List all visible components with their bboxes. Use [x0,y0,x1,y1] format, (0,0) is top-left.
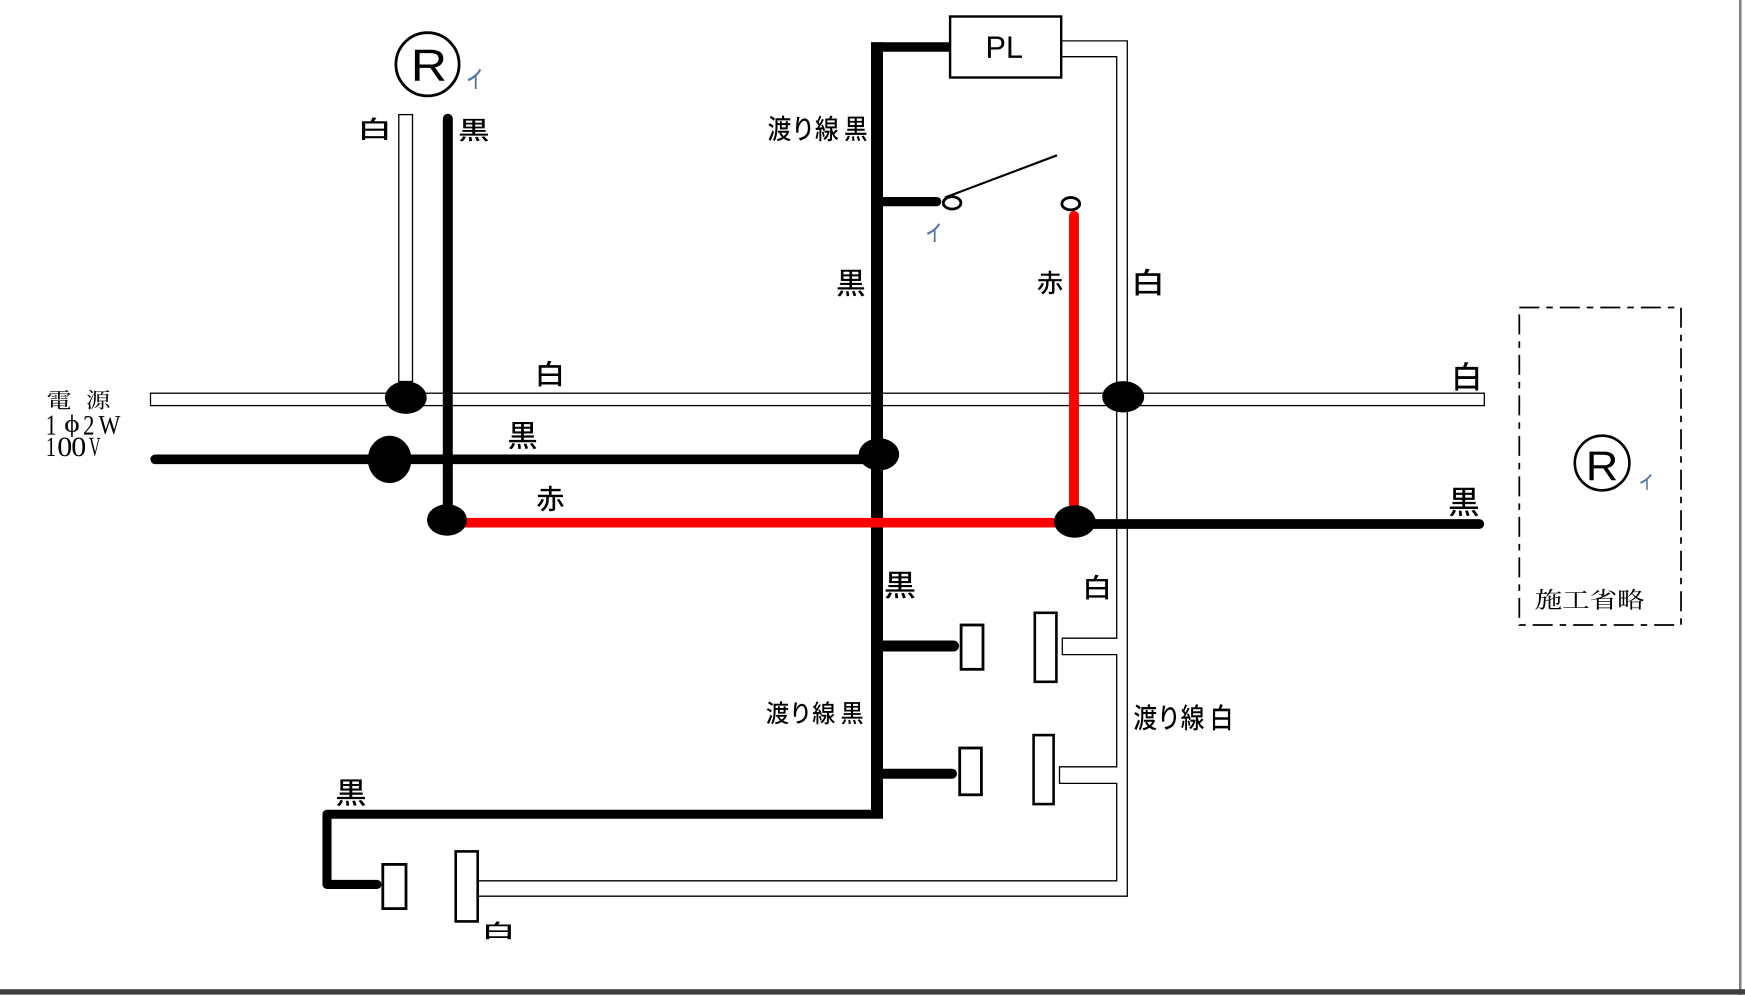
receptacle 2 black terminal [960,748,982,795]
label 白 bottom [486,922,511,940]
pilot lamp PL label [988,37,1022,58]
label 渡り線 白 [1134,704,1230,730]
label 赤 mid [537,486,563,512]
label 黒 switch-left [838,270,865,297]
label 施工省略 [1535,589,1644,610]
switch contact right [1062,198,1080,210]
label 白 top-left [362,117,387,140]
wire: white neutral vertical drop from lamp R to junction [399,115,413,382]
lamp R right subscript イ [1640,474,1651,490]
label 100V [48,438,55,456]
label 白 below right junction [1086,575,1108,600]
node: junction dot black wire left [368,436,412,483]
label 白 switch-right [1136,269,1161,296]
receptacle 2 white terminal [1034,735,1054,804]
label 黒 top-left [460,119,489,142]
wire: black stub to receptacle 1 [877,641,954,652]
label 黒 mid [509,422,536,449]
wire: red horizontal between junctions [447,518,1075,528]
node: junction dot red wire right [1054,505,1096,537]
wire: black vertical from lamp R down to red junction [443,119,453,524]
receptacle 3 white terminal [456,851,478,921]
dashed box 施工省略 [1519,308,1681,626]
label 黒 right-end [1450,488,1479,517]
wire: white neutral horizontal from source to right end [151,393,1485,405]
switch contact left [943,197,961,209]
switch blade [945,155,1057,197]
receptacle 3 black terminal [383,864,406,908]
label 赤 switch [1038,271,1063,295]
node: junction dot red wire left [427,504,467,535]
label 渡り線 黒 lower [767,701,863,724]
receptacle 1 black terminal [961,625,983,669]
node: junction dot white wire right [1102,381,1144,412]
lamp R right circle [1575,436,1630,491]
node: junction dot black trunk [859,438,899,470]
lamp R left subscript イ [468,68,481,88]
label 黒 below trunk [886,572,915,599]
wire: black stub to switch イ pole [877,197,937,206]
wire: white neutral outline from PL right side down to bottom run (outer edge) [478,41,1127,896]
label 黒 bottom-left [337,779,365,806]
lamp R right letter [1589,452,1616,481]
page bottom border [0,989,1745,994]
wire: black feed into PL box [871,42,950,52]
page right border [1739,0,1742,995]
switch name イ [927,223,940,242]
node: junction dot white wire left [385,381,427,414]
wire: white neutral outline inner edge incl. jumpers to receptacle white terminals [478,57,1117,881]
receptacle 1 white terminal [1035,613,1057,682]
wire: black horizontal to right (to omitted lamp) [1075,519,1479,529]
label 白 mid [539,361,561,387]
pilot lamp PL box [950,17,1061,78]
wire: red vertical from switch contact down [1069,216,1079,523]
lamp R left circle [396,33,459,96]
wire: black stub to receptacle 2 [877,769,952,779]
lamp R left letter [415,50,445,81]
label 電源 [48,390,71,409]
wire: black bottom run to bottom-left receptacle [327,814,883,884]
wire: black vertical trunk below PL [871,42,883,814]
label 白 right-end [1455,362,1478,391]
label 渡り線 黒 top [768,116,866,142]
wire: black power horizontal from source to trunk [155,454,877,464]
label 1phi2W [48,416,56,435]
